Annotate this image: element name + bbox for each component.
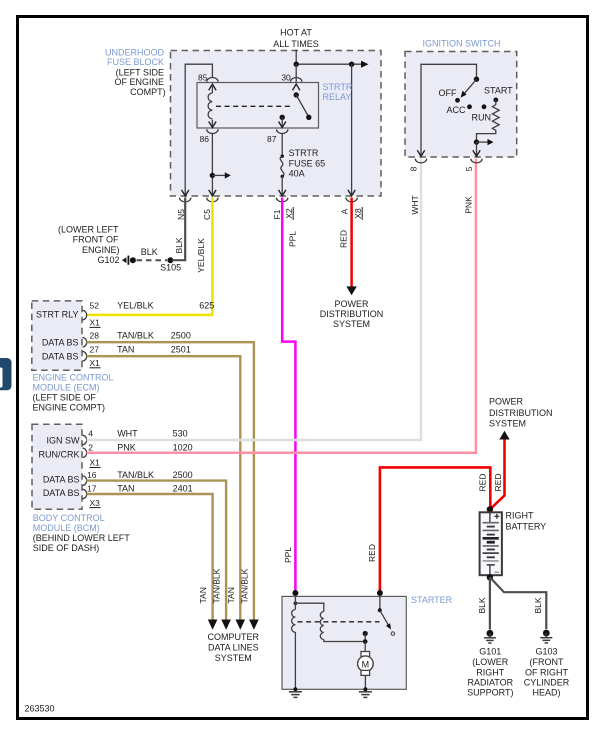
- ignition pin 5: [464, 159, 482, 172]
- contact RUN: [472, 104, 492, 122]
- svg-text:PPL: PPL: [287, 231, 297, 247]
- module label ECM: [33, 373, 114, 413]
- svg-text:8: 8: [408, 166, 418, 171]
- svg-text:SYSTEM: SYSTEM: [215, 653, 252, 663]
- svg-text:530: 530: [173, 429, 188, 439]
- svg-text:625: 625: [199, 301, 214, 311]
- node HOT AT ALL TIMES: [273, 28, 319, 50]
- svg-text:A: A: [340, 208, 350, 214]
- svg-text:(LEFT SIDE OF: (LEFT SIDE OF: [33, 393, 97, 403]
- svg-text:BLK: BLK: [141, 247, 158, 257]
- svg-text:ENGINE CONTROL: ENGINE CONTROL: [33, 373, 114, 383]
- svg-text:PNK: PNK: [117, 443, 136, 453]
- svg-text:86: 86: [200, 134, 210, 144]
- svg-text:ACC: ACC: [446, 105, 466, 115]
- svg-text:SUPPORT): SUPPORT): [467, 687, 513, 697]
- wire PNK 1020: [87, 159, 476, 453]
- wire TAN/BLK 2500 BCM: [87, 481, 227, 620]
- wire WHT 530: [87, 159, 422, 440]
- relay pin 87: [200, 115, 288, 144]
- module label BCM: [33, 513, 131, 553]
- ignition switch: [405, 39, 517, 157]
- node COMPUTER DATA LINES SYSTEM: [208, 632, 260, 663]
- svg-text:30: 30: [281, 73, 291, 83]
- wire pin30 feed: [295, 64, 297, 95]
- svg-text:5: 5: [464, 166, 474, 171]
- svg-text:87: 87: [267, 134, 277, 144]
- svg-text:TAN: TAN: [117, 483, 134, 493]
- svg-text:START: START: [484, 85, 513, 95]
- fuse block pin N5: [176, 190, 191, 220]
- svg-text:2501: 2501: [171, 345, 191, 355]
- svg-text:RIGHT: RIGHT: [506, 510, 535, 520]
- solenoid pull-in coil: [320, 612, 365, 642]
- ignition output node: [473, 139, 494, 156]
- wire pin85 to N5: [185, 64, 212, 195]
- svg-text:OFF: OFF: [439, 88, 457, 98]
- wire relay86 to C5: [210, 134, 231, 196]
- ground G102: [58, 225, 136, 265]
- ground G103: [524, 630, 570, 698]
- svg-text:ENGINE COMPT): ENGINE COMPT): [33, 403, 106, 413]
- node POWER DISTRIBUTION SYSTEM (right): [489, 397, 553, 429]
- svg-text:BLK: BLK: [477, 597, 487, 613]
- svg-text:263530: 263530: [25, 704, 55, 714]
- svg-text:2500: 2500: [173, 470, 193, 480]
- svg-text:STRT RLY: STRT RLY: [36, 309, 79, 319]
- ignition switch feed wire: [417, 64, 476, 156]
- wire BLK N5 to S105: [172, 198, 185, 261]
- relay coil: [208, 84, 216, 128]
- fuse block pin A/X8: [340, 190, 364, 220]
- sidebar tab: [0, 358, 12, 390]
- svg-text:OF ENGINE: OF ENGINE: [114, 77, 164, 87]
- fuse block pin F1/X2: [272, 190, 294, 220]
- svg-text:FUSE 65: FUSE 65: [289, 158, 326, 168]
- contact ACC: [446, 104, 471, 115]
- ignition switch wiper: [461, 77, 480, 98]
- svg-text:2401: 2401: [173, 483, 193, 493]
- svg-text:YEL/BLK: YEL/BLK: [117, 301, 154, 311]
- svg-text:X3: X3: [90, 498, 101, 508]
- svg-text:TAN: TAN: [117, 345, 134, 355]
- svg-text:TAN/BLK: TAN/BLK: [212, 568, 222, 603]
- svg-text:CYLINDER: CYLINDER: [524, 678, 570, 688]
- svg-text:BATTERY: BATTERY: [506, 521, 547, 531]
- battery RIGHT BATTERY: [480, 506, 547, 580]
- arrows to computer data lines: [208, 620, 259, 630]
- svg-text:BLK: BLK: [174, 237, 184, 253]
- svg-text:TAN/BLK: TAN/BLK: [239, 568, 249, 603]
- splice S105: [160, 257, 181, 272]
- svg-text:C5: C5: [202, 209, 212, 220]
- wire RED to power distribution (center): [338, 198, 356, 296]
- contact OFF: [439, 88, 460, 103]
- starter dashed link: [298, 621, 380, 623]
- svg-text:RUN/CRK: RUN/CRK: [38, 449, 79, 459]
- relay switch: [294, 92, 312, 120]
- svg-text:X1: X1: [90, 318, 101, 328]
- ignition pin 8: [408, 159, 426, 172]
- svg-text:SIDE OF DASH): SIDE OF DASH): [33, 543, 100, 553]
- svg-text:HEAD): HEAD): [532, 687, 560, 697]
- svg-text:WHT: WHT: [410, 195, 420, 214]
- svg-text:G103: G103: [535, 647, 557, 657]
- svg-text:(LOWER LEFT: (LOWER LEFT: [58, 225, 119, 235]
- svg-text:RED: RED: [367, 544, 377, 562]
- svg-text:DATA BS: DATA BS: [43, 474, 80, 484]
- ECM pin 28: [83, 330, 191, 347]
- starter: [282, 595, 453, 689]
- svg-text:PPL: PPL: [283, 547, 293, 563]
- ECM pin 27: [83, 345, 191, 369]
- svg-text:TAN/BLK: TAN/BLK: [117, 330, 154, 340]
- wire TAN 2401 BCM: [87, 494, 213, 620]
- svg-text:DISTRIBUTION: DISTRIBUTION: [320, 309, 384, 319]
- ECM connector X1: [32, 301, 82, 370]
- svg-text:DATA LINES: DATA LINES: [208, 643, 259, 653]
- solenoid switch: [363, 596, 395, 643]
- wire hot feed bus: [294, 50, 369, 68]
- wire BLK G102 to S105 (dashed): [137, 247, 168, 260]
- svg-text:TAN: TAN: [198, 587, 208, 603]
- contact START: [484, 85, 513, 102]
- svg-text:2: 2: [88, 443, 93, 453]
- svg-text:MODULE (BCM): MODULE (BCM): [33, 523, 100, 533]
- wire YEL/BLK 625: [87, 198, 213, 315]
- svg-text:(BEHIND LOWER LEFT: (BEHIND LOWER LEFT: [33, 533, 131, 543]
- ECM pin 52: [83, 301, 215, 328]
- wire BLK battery to G101: [477, 577, 490, 629]
- svg-text:TAN: TAN: [226, 587, 236, 603]
- svg-text:IGNITION SWITCH: IGNITION SWITCH: [423, 39, 501, 49]
- wire TAN 2501 ECM: [87, 356, 241, 619]
- svg-text:STRTR: STRTR: [323, 82, 353, 92]
- wire A/X8 feed: [351, 64, 353, 195]
- svg-text:RED: RED: [478, 474, 488, 492]
- svg-text:G101: G101: [479, 647, 501, 657]
- underhood fuse block: [105, 47, 381, 196]
- svg-text:HOT AT: HOT AT: [280, 28, 312, 38]
- resistor (start bypass): [477, 100, 500, 140]
- relay pin 30: [281, 73, 302, 91]
- svg-text:PNK: PNK: [464, 196, 474, 214]
- starter solenoid input node: [294, 596, 324, 611]
- svg-text:(FRONT: (FRONT: [530, 657, 564, 667]
- svg-text:RADIATOR: RADIATOR: [467, 678, 513, 688]
- wire TAN/BLK 2500 ECM: [87, 342, 254, 619]
- svg-text:RED: RED: [338, 230, 348, 248]
- svg-text:RED: RED: [493, 474, 503, 492]
- BCM pin 16: [83, 470, 193, 485]
- svg-text:MODULE (ECM): MODULE (ECM): [33, 382, 100, 392]
- svg-text:4: 4: [88, 429, 93, 439]
- relay U1 STRTR RELAY: [197, 82, 353, 128]
- svg-text:STARTER: STARTER: [411, 595, 453, 605]
- svg-text:X1: X1: [90, 458, 101, 468]
- wire RED battery to starter: [367, 467, 491, 596]
- svg-text:(LOWER: (LOWER: [472, 657, 509, 667]
- relay dashed link: [216, 105, 293, 107]
- svg-text:RIGHT: RIGHT: [476, 667, 505, 677]
- svg-text:BLK: BLK: [533, 597, 543, 613]
- ground (starter motor): [359, 687, 372, 697]
- svg-text:DATA BS: DATA BS: [43, 488, 80, 498]
- BCM pin 17: [83, 483, 193, 507]
- wire RED battery to power distribution: [490, 431, 510, 510]
- svg-text:DATA BS: DATA BS: [42, 351, 79, 361]
- svg-text:RELAY: RELAY: [323, 92, 352, 102]
- fuse block pin C5: [202, 190, 218, 220]
- svg-text:ALL TIMES: ALL TIMES: [273, 39, 319, 49]
- ground (starter solenoid): [289, 687, 302, 697]
- wire labels TAN group: [198, 568, 249, 603]
- svg-text:FRONT OF: FRONT OF: [73, 235, 119, 245]
- svg-text:IGN SW: IGN SW: [47, 435, 81, 445]
- svg-text:28: 28: [90, 330, 100, 340]
- ground G101: [467, 630, 514, 698]
- svg-text:WHT: WHT: [117, 429, 138, 439]
- svg-text:(LEFT SIDE: (LEFT SIDE: [116, 68, 164, 78]
- svg-text:27: 27: [90, 345, 100, 355]
- node POWER DISTRIBUTION SYSTEM (center): [320, 299, 384, 329]
- wire BLK battery to G103: [490, 577, 546, 629]
- relay pin 85: [198, 73, 218, 91]
- wire PPL to starter: [282, 198, 298, 597]
- svg-text:UNDERHOOD: UNDERHOOD: [105, 47, 165, 57]
- svg-text:POWER: POWER: [489, 397, 524, 407]
- svg-text:STRTR: STRTR: [289, 148, 319, 158]
- svg-text:SYSTEM: SYSTEM: [489, 419, 526, 429]
- svg-text:16: 16: [87, 470, 97, 480]
- svg-text:FUSE BLOCK: FUSE BLOCK: [107, 57, 164, 67]
- svg-text:SYSTEM: SYSTEM: [333, 319, 370, 329]
- svg-text:G102: G102: [97, 255, 119, 265]
- motor M: [358, 642, 374, 690]
- svg-text:17: 17: [87, 483, 97, 493]
- svg-text:RUN: RUN: [472, 112, 492, 122]
- svg-text:S105: S105: [160, 263, 181, 273]
- svg-text:YEL/BLK: YEL/BLK: [196, 238, 206, 273]
- svg-text:F1: F1: [272, 209, 282, 219]
- svg-text:COMPUTER: COMPUTER: [208, 632, 260, 642]
- BCM connector: [32, 424, 82, 509]
- svg-text:DISTRIBUTION: DISTRIBUTION: [489, 408, 553, 418]
- svg-text:ENGINE): ENGINE): [82, 245, 120, 255]
- svg-text:M: M: [362, 660, 370, 670]
- svg-text:DATA BS: DATA BS: [42, 337, 79, 347]
- svg-text:1020: 1020: [173, 443, 193, 453]
- svg-text:COMPT): COMPT): [130, 87, 166, 97]
- svg-text:BODY CONTROL: BODY CONTROL: [33, 513, 105, 523]
- svg-text:TAN/BLK: TAN/BLK: [117, 470, 154, 480]
- svg-text:X1: X1: [90, 358, 101, 368]
- fuse STRTR FUSE 65 40A: [280, 134, 325, 196]
- svg-text:2500: 2500: [171, 330, 191, 340]
- BCM pin 2: [83, 443, 193, 468]
- svg-text:OF RIGHT: OF RIGHT: [525, 667, 568, 677]
- svg-text:52: 52: [90, 301, 100, 311]
- svg-text:POWER: POWER: [334, 299, 369, 309]
- BCM pin 4: [83, 429, 188, 445]
- svg-text:40A: 40A: [289, 168, 305, 178]
- solenoid hold-in coil: [292, 609, 296, 689]
